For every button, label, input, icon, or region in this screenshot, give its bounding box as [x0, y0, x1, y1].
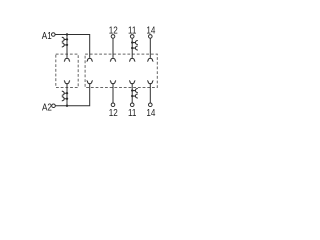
svg-text:A1: A1 — [42, 30, 52, 41]
wire A1 to riser corner — [55, 35, 89, 58]
plug-in contact 11 bottom — [129, 81, 135, 84]
terminal 12 bottom circle — [111, 103, 115, 107]
terminal 12 top circle — [111, 35, 115, 39]
terminal A2 circle — [52, 104, 56, 108]
socket contact 11 top upper — [131, 41, 138, 45]
socket contact 11 top lower — [131, 46, 138, 50]
plug-in contact 12 bottom — [110, 81, 116, 84]
plug-in contact 14 top — [147, 58, 153, 61]
wire 12 top — [112, 38, 114, 58]
terminal 14 top circle — [149, 35, 153, 39]
socket contact A2 branch lower — [62, 97, 68, 101]
socket contact 11 bottom upper — [131, 89, 138, 93]
svg-text:12: 12 — [109, 107, 118, 118]
terminal 11 top circle — [130, 35, 134, 39]
terminal A1 circle — [52, 33, 56, 37]
plug-in contact 12 top — [110, 58, 116, 61]
socket contact A2 branch upper — [62, 91, 68, 95]
socket contact A1 branch upper — [62, 37, 68, 41]
terminal 14 bottom circle — [149, 103, 153, 107]
wire 11 bottom — [131, 84, 133, 103]
svg-text:11: 11 — [128, 24, 136, 35]
svg-text:11: 11 — [128, 107, 136, 118]
plug-in contact A1 riser top — [87, 58, 93, 61]
plug-in contact 14 bottom — [147, 81, 153, 84]
terminal 11 bottom circle — [130, 103, 134, 107]
plug-in contact coil branch top — [64, 58, 70, 61]
wire 14 bottom — [149, 84, 151, 103]
wire 12 bottom — [112, 84, 114, 103]
plug-in contact A2 riser bottom — [87, 81, 93, 84]
svg-text:12: 12 — [109, 24, 118, 35]
junction dot A2 tee — [66, 105, 68, 107]
svg-text:14: 14 — [146, 24, 155, 35]
wire 14 top — [149, 38, 151, 58]
wire A1 coil branch — [66, 35, 68, 58]
socket contact 11 bottom lower — [131, 94, 138, 98]
svg-text:14: 14 — [146, 107, 155, 118]
plug-in contact 11 top — [129, 58, 135, 61]
wire A2 coil branch — [66, 84, 68, 106]
wire A2 to riser corner — [55, 84, 89, 106]
relay outline right (dashed) — [85, 54, 157, 87]
wire 11 top — [131, 38, 133, 58]
relay outline left (dashed) — [56, 54, 78, 87]
junction dot A1 tee — [66, 33, 68, 35]
plug-in contact A2 branch bottom — [64, 81, 70, 84]
svg-text:A2: A2 — [42, 101, 52, 112]
socket contact A1 branch lower — [62, 43, 68, 47]
